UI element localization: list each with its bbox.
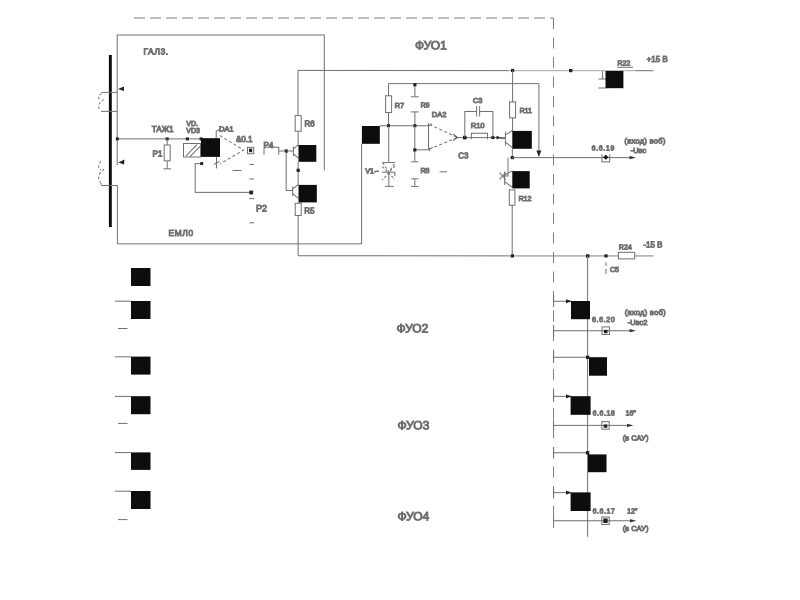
svg-text:Р2: Р2 <box>256 204 267 214</box>
DA1 top pin <box>216 130 219 139</box>
svg-text:R6: R6 <box>305 120 316 129</box>
node R9 top <box>413 83 416 86</box>
svg-text:ЕМЛ0: ЕМЛ0 <box>169 228 194 238</box>
svg-text:С5: С5 <box>610 267 619 274</box>
transformer winding tap y92 <box>102 91 118 93</box>
transformer T core bar <box>109 55 112 227</box>
wire Q1 emitter <box>511 149 513 158</box>
transformer winding tap y111 <box>101 110 117 112</box>
stub A2 <box>118 328 128 330</box>
stub dash right of R8 <box>440 171 447 173</box>
ch2 out wire <box>554 330 634 332</box>
box U2 top edge / +15V rail <box>298 69 654 71</box>
bus vertical <box>587 256 589 537</box>
svg-text:R22: R22 <box>617 61 630 68</box>
node R7 bottom <box>387 124 390 127</box>
node emitter QA <box>297 169 300 172</box>
feedback wire DA1 <box>195 164 251 193</box>
ch2 node bus <box>586 356 589 359</box>
svg-text:6.6.19: 6.6.19 <box>592 145 615 152</box>
resistor R11 <box>510 70 516 130</box>
svg-text:16": 16" <box>626 411 637 418</box>
node R12 bottom <box>511 254 514 257</box>
resistor R8 column <box>411 126 418 187</box>
DA1 pin stub 4 <box>249 222 254 224</box>
wire QA-QB <box>297 162 299 185</box>
opto U2 body <box>362 126 380 144</box>
ch4 opto1 body <box>571 492 591 511</box>
ch3 arrow in <box>566 394 572 398</box>
svg-text:Р4: Р4 <box>264 141 274 150</box>
transformer winding tap y185 <box>101 185 117 187</box>
suppressor VD zener <box>382 126 395 187</box>
svg-text:+15 В: +15 В <box>647 55 668 64</box>
svg-text:6.6.20: 6.6.20 <box>592 317 615 324</box>
wire fb DA2 <box>414 149 428 151</box>
input wire A3 <box>115 356 131 358</box>
transformer primary winding top <box>99 94 104 111</box>
op-amp DA1 triangle dashed <box>220 136 244 165</box>
node R1 top <box>166 137 169 140</box>
opto DA1 body <box>201 138 220 157</box>
sub box top edge <box>389 83 539 85</box>
node rail R11 <box>511 69 514 72</box>
box U2 left edge upper <box>297 70 299 115</box>
ch3 node bus <box>586 451 589 454</box>
transistor QB <box>293 185 299 199</box>
svg-text:R5: R5 <box>304 207 315 216</box>
diode VD2 VD3 block <box>184 144 201 158</box>
node Q1 emitter <box>511 156 514 159</box>
stub A6 <box>118 519 128 521</box>
connector pin out DA1 <box>248 147 254 153</box>
resistor R4 body <box>264 147 279 155</box>
capacitor C3 loop <box>465 106 493 137</box>
svg-text:С3: С3 <box>458 151 469 160</box>
svg-text:ФУО4: ФУО4 <box>398 510 430 524</box>
ch4 connector <box>602 517 609 525</box>
ch4 out wire <box>554 520 634 522</box>
input opto A6 body <box>131 491 151 509</box>
arrow out <box>497 136 502 140</box>
svg-text:R12: R12 <box>519 196 532 203</box>
resistor R1 <box>164 139 172 169</box>
ch2 opto2 body <box>589 357 607 376</box>
svg-text:R8: R8 <box>421 168 430 175</box>
ch4 arrow in <box>566 491 572 495</box>
node out 2 <box>491 136 494 139</box>
ch2 wire 2 <box>554 356 589 358</box>
R22 body <box>606 71 624 88</box>
op-amp DA2 <box>429 123 458 151</box>
transistor Q2 body <box>512 171 529 188</box>
svg-text:(в САУ): (в САУ) <box>623 433 649 442</box>
node +15 rail <box>569 69 572 72</box>
ch4 wire in <box>554 492 571 494</box>
wire DA2 out <box>458 137 506 139</box>
svg-text:VD3: VD3 <box>186 128 200 135</box>
resistor R10 body <box>471 133 487 139</box>
svg-text:ФУО2: ФУО2 <box>397 322 429 336</box>
capacitor C5 <box>605 262 607 274</box>
ch3 opto2 body <box>588 454 607 472</box>
resistor R5 <box>295 202 301 255</box>
svg-text:R10: R10 <box>471 121 485 130</box>
stub under triangle <box>233 170 242 172</box>
resistor R12 <box>509 190 515 256</box>
ch3 connector <box>602 422 609 430</box>
svg-text:R7: R7 <box>395 101 405 110</box>
node fb DA2 <box>413 148 416 151</box>
svg-text:V1·-: V1·- <box>365 168 379 175</box>
svg-text:-15 В: -15 В <box>643 240 662 249</box>
arrow down to out wire <box>536 151 541 158</box>
svg-text:DA2: DA2 <box>432 110 447 119</box>
DA1 pin stub 1 <box>249 163 254 165</box>
transistor QA body <box>299 145 317 162</box>
stub A4 <box>118 422 128 424</box>
node R4 out <box>285 149 288 152</box>
DA1 bottom pin <box>216 157 218 168</box>
input opto A4 body <box>131 396 151 414</box>
svg-text:6.6.18: 6.6.18 <box>593 411 616 418</box>
node DA1 in <box>200 137 203 140</box>
transistor QA <box>293 145 298 158</box>
ch2 arrow in <box>566 299 572 303</box>
input opto A5 body <box>131 452 151 470</box>
dashed border right vertical <box>553 18 555 528</box>
transistor QB body <box>299 185 317 203</box>
box U1 bottom edge <box>117 243 361 245</box>
R22 underline <box>617 66 633 68</box>
svg-text:ГАЛ3.: ГАЛ3. <box>144 47 169 57</box>
box U1 left edge lower <box>116 186 118 244</box>
transformer tap arrow 1 <box>118 87 124 92</box>
wire main input y139 <box>117 138 201 140</box>
box U2 bottom edge / -15V rail <box>298 255 654 257</box>
svg-text:(в САУ): (в САУ) <box>623 524 649 533</box>
svg-text:ТАЖ1: ТАЖ1 <box>152 125 174 134</box>
ch2 wire in <box>554 300 571 302</box>
channel boundary ticks <box>553 295 555 527</box>
ch3 opto1 body <box>571 396 591 415</box>
input wire A5 <box>115 452 131 454</box>
svg-text:-Uвс2: -Uвс2 <box>628 318 648 327</box>
svg-text:(вход) воб): (вход) воб) <box>625 308 666 317</box>
input wire A4 <box>115 395 131 397</box>
node P2 <box>249 191 253 195</box>
filter cap C6 <box>599 71 607 88</box>
resistor R7 <box>386 84 392 126</box>
capacitor R9 column <box>411 85 419 126</box>
node input <box>116 137 119 140</box>
dashed border top <box>134 17 554 19</box>
svg-text:(вход) воб): (вход) воб) <box>624 136 665 145</box>
node out 1 <box>463 136 467 140</box>
input opto A1 body <box>131 268 151 286</box>
ch3 wire in <box>554 395 571 397</box>
svg-text:DA1: DA1 <box>219 124 234 133</box>
wire base QA <box>286 150 293 152</box>
input opto A3 body <box>131 357 151 375</box>
svg-text:R24: R24 <box>619 244 632 251</box>
ch3 arrow out <box>627 424 633 427</box>
transistor Q2 <box>500 171 513 188</box>
input wire A6 <box>115 490 131 492</box>
ch3 out wire <box>554 424 631 426</box>
ch2 arrow out <box>630 329 636 332</box>
node -15 rail bus <box>586 254 589 257</box>
svg-text:ФУО3: ФУО3 <box>398 419 430 433</box>
transformer primary winding bottom <box>99 162 104 185</box>
svg-text:Р1: Р1 <box>153 150 163 159</box>
svg-text:R11: R11 <box>520 108 532 115</box>
ch2 connector <box>602 327 609 335</box>
node R9 bottom <box>413 124 416 127</box>
svg-text:R9: R9 <box>421 102 430 109</box>
wire out -Uvs <box>512 157 633 159</box>
svg-text:12": 12" <box>627 508 638 515</box>
input wire A2 <box>115 300 131 302</box>
svg-text:&0.1: &0.1 <box>236 135 253 144</box>
DA1 pin stub 2 <box>249 178 254 180</box>
svg-text:VD.: VD. <box>186 121 198 128</box>
svg-text:ФУО1: ФУО1 <box>415 39 447 53</box>
wire opto down <box>361 144 363 244</box>
svg-text:6.6.17: 6.6.17 <box>593 508 616 515</box>
node VD top <box>186 137 189 140</box>
connector XS1 <box>602 154 610 162</box>
wire Q2 base <box>504 158 508 176</box>
ch2 opto1 body <box>571 301 590 319</box>
wire R4 to base QB <box>279 151 293 191</box>
ch4 arrow out <box>630 519 636 522</box>
sub box right edge <box>538 84 540 151</box>
wire mid y125.7 <box>380 125 429 127</box>
svg-text:-Uвс: -Uвс <box>631 146 647 155</box>
node fb corner <box>200 162 203 165</box>
input opto A2 body <box>131 301 151 319</box>
transistor Q1 body <box>512 131 532 149</box>
transformer tap arrow 2 <box>118 160 124 165</box>
resistor R24 <box>618 252 634 259</box>
arrow -Uvs <box>630 156 637 159</box>
node -15 rail c5 <box>604 254 607 257</box>
transistor Q1 <box>500 131 512 148</box>
box U1 (galvanic block) outline <box>117 35 324 170</box>
svg-text:С3: С3 <box>473 96 483 105</box>
ch3 wire 2 <box>554 452 588 454</box>
resistor R6 <box>295 116 301 145</box>
DA1 bottom pin mark <box>214 162 220 165</box>
DA1 pin stub 3 <box>249 198 254 200</box>
